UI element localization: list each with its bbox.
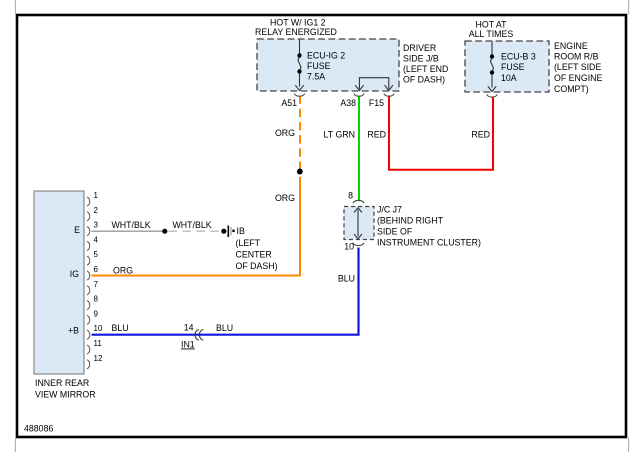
svg-text:LT GRN: LT GRN	[324, 130, 355, 140]
svg-text:(LEFT: (LEFT	[236, 238, 261, 248]
svg-text:10: 10	[344, 242, 354, 252]
svg-text:A51: A51	[281, 98, 297, 108]
svg-text:HOT W/ IG1 2: HOT W/ IG1 2	[270, 18, 326, 28]
svg-text:OF DASH): OF DASH)	[236, 261, 278, 271]
svg-text:BLU: BLU	[216, 323, 233, 333]
svg-text:5: 5	[94, 250, 99, 259]
svg-text:BLU: BLU	[338, 274, 355, 284]
svg-text:ECU-B 3: ECU-B 3	[501, 52, 536, 62]
svg-text:6: 6	[94, 265, 99, 274]
svg-text:4: 4	[94, 235, 99, 244]
svg-text:3: 3	[94, 221, 99, 230]
svg-text:FUSE: FUSE	[307, 61, 331, 71]
svg-text:SIDE OF: SIDE OF	[377, 227, 413, 237]
svg-text:J/C J7: J/C J7	[377, 205, 402, 215]
svg-text:A38: A38	[340, 98, 356, 108]
svg-text:ORG: ORG	[275, 193, 295, 203]
svg-text:+B: +B	[68, 326, 79, 336]
svg-text:OF ENGINE: OF ENGINE	[554, 73, 603, 83]
svg-text:IN1: IN1	[181, 340, 195, 350]
svg-text:BLU: BLU	[112, 323, 129, 333]
svg-text:ENGINE: ENGINE	[554, 41, 588, 51]
svg-text:DRIVER: DRIVER	[403, 43, 436, 53]
svg-text:INSTRUMENT CLUSTER): INSTRUMENT CLUSTER)	[377, 238, 481, 248]
svg-text:10A: 10A	[501, 73, 517, 83]
svg-text:ECU-IG 2: ECU-IG 2	[307, 51, 345, 61]
svg-text:COMPT): COMPT)	[554, 84, 589, 94]
svg-text:OF DASH): OF DASH)	[403, 75, 445, 85]
svg-text:488086: 488086	[24, 424, 53, 434]
svg-text:WHT/BLK: WHT/BLK	[112, 220, 151, 230]
svg-text:ROOM R/B: ROOM R/B	[554, 52, 599, 62]
svg-text:10: 10	[94, 324, 103, 333]
svg-text:ALL TIMES: ALL TIMES	[469, 29, 514, 39]
svg-text:2: 2	[94, 206, 99, 215]
svg-text:8: 8	[94, 295, 99, 304]
svg-text:1: 1	[94, 191, 99, 200]
svg-text:(BEHIND RIGHT: (BEHIND RIGHT	[377, 216, 444, 226]
svg-text:7: 7	[94, 280, 99, 289]
svg-text:8: 8	[348, 191, 353, 201]
svg-text:ORG: ORG	[113, 266, 133, 276]
svg-text:(LEFT SIDE: (LEFT SIDE	[554, 62, 601, 72]
svg-text:HOT AT: HOT AT	[476, 20, 508, 30]
svg-text:IG: IG	[70, 269, 79, 279]
svg-text:VIEW MIRROR: VIEW MIRROR	[35, 390, 96, 400]
svg-text:CENTER: CENTER	[236, 250, 272, 260]
svg-text:RED: RED	[471, 130, 490, 140]
svg-text:FUSE: FUSE	[501, 62, 525, 72]
svg-text:14: 14	[184, 323, 194, 333]
svg-text:E: E	[74, 225, 80, 235]
svg-text:F15: F15	[369, 98, 384, 108]
svg-text:SIDE J/B: SIDE J/B	[403, 54, 439, 64]
svg-text:RELAY ENERGIZED: RELAY ENERGIZED	[255, 27, 337, 37]
svg-text:11: 11	[94, 339, 103, 348]
svg-text:7.5A: 7.5A	[307, 72, 325, 82]
svg-text:RED: RED	[367, 130, 386, 140]
svg-text:WHT/BLK: WHT/BLK	[173, 220, 212, 230]
svg-text:ORG: ORG	[275, 128, 295, 138]
svg-text:IB: IB	[237, 226, 245, 236]
svg-text:12: 12	[94, 354, 103, 363]
svg-text:(LEFT END: (LEFT END	[403, 64, 448, 74]
svg-text:9: 9	[94, 309, 99, 318]
svg-text:INNER REAR: INNER REAR	[35, 378, 89, 388]
